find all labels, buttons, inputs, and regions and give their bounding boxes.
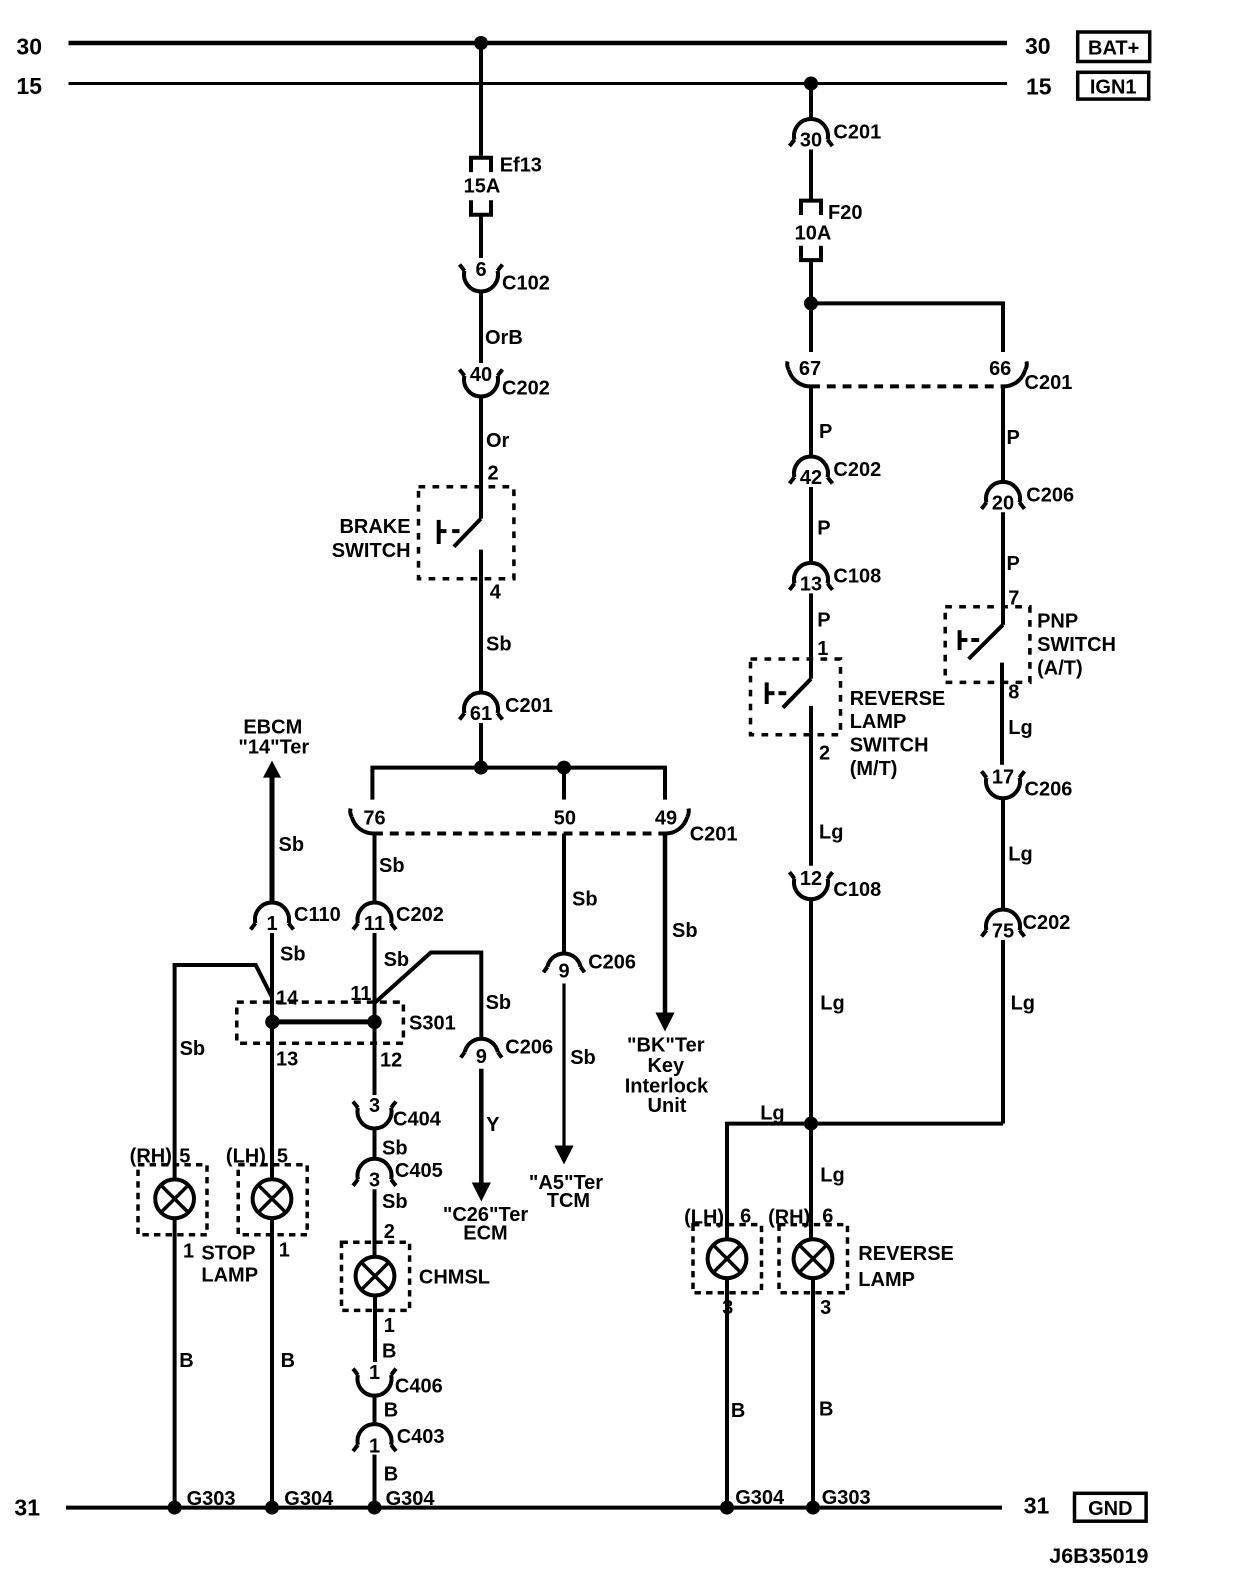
svg-text:SWITCH: SWITCH xyxy=(850,735,929,757)
svg-text:2: 2 xyxy=(384,1221,395,1243)
svg-text:G304: G304 xyxy=(284,1488,334,1510)
svg-text:1: 1 xyxy=(369,1436,380,1458)
svg-text:12: 12 xyxy=(380,1050,402,1072)
svg-text:3: 3 xyxy=(820,1297,831,1319)
svg-text:G303: G303 xyxy=(822,1487,871,1509)
svg-text:B: B xyxy=(384,1464,398,1486)
svg-text:P: P xyxy=(819,421,832,443)
svg-text:PNP: PNP xyxy=(1037,611,1078,633)
svg-text:1: 1 xyxy=(817,638,828,660)
svg-text:Sb: Sb xyxy=(672,920,698,942)
svg-text:8: 8 xyxy=(1008,681,1019,703)
svg-text:STOP: STOP xyxy=(201,1243,255,1265)
svg-text:3: 3 xyxy=(369,1095,380,1117)
svg-text:1: 1 xyxy=(384,1315,395,1337)
svg-text:C406: C406 xyxy=(395,1376,443,1398)
svg-text:12: 12 xyxy=(800,868,822,890)
svg-text:Sb: Sb xyxy=(379,855,405,877)
svg-text:15: 15 xyxy=(1026,73,1052,99)
svg-text:2: 2 xyxy=(488,463,499,485)
svg-text:C202: C202 xyxy=(833,459,881,481)
svg-text:P: P xyxy=(817,610,830,632)
svg-text:CHMSL: CHMSL xyxy=(419,1267,490,1289)
svg-text:66: 66 xyxy=(989,358,1011,380)
svg-text:15A: 15A xyxy=(464,176,501,198)
svg-text:9: 9 xyxy=(558,961,569,983)
svg-text:C206: C206 xyxy=(1026,485,1074,507)
svg-text:P: P xyxy=(817,518,830,540)
svg-text:Sb: Sb xyxy=(486,634,512,656)
svg-text:(A/T): (A/T) xyxy=(1037,658,1083,680)
svg-text:Sb: Sb xyxy=(384,949,410,971)
svg-text:C206: C206 xyxy=(588,952,636,974)
svg-text:Or: Or xyxy=(486,430,510,452)
svg-text:(M/T): (M/T) xyxy=(850,758,898,780)
svg-text:C201: C201 xyxy=(1025,372,1073,394)
svg-text:31: 31 xyxy=(1024,1493,1050,1519)
svg-text:4: 4 xyxy=(490,582,502,604)
svg-text:Sb: Sb xyxy=(180,1038,206,1060)
svg-text:10A: 10A xyxy=(795,222,832,244)
svg-text:6: 6 xyxy=(475,259,486,281)
svg-text:Sb: Sb xyxy=(279,834,305,856)
svg-text:C201: C201 xyxy=(833,122,881,144)
svg-text:G303: G303 xyxy=(187,1488,236,1510)
svg-text:GND: GND xyxy=(1088,1498,1132,1520)
svg-text:C202: C202 xyxy=(1023,912,1071,934)
svg-text:B: B xyxy=(179,1350,193,1372)
svg-text:20: 20 xyxy=(992,493,1014,515)
svg-text:Lg: Lg xyxy=(1008,844,1032,866)
svg-text:Sb: Sb xyxy=(486,992,512,1014)
svg-text:REVERSE: REVERSE xyxy=(858,1243,954,1265)
svg-text:13: 13 xyxy=(276,1049,298,1071)
svg-text:C206: C206 xyxy=(505,1037,553,1059)
svg-text:BRAKE: BRAKE xyxy=(339,516,410,538)
svg-text:LAMP: LAMP xyxy=(850,711,907,733)
svg-text:(LH): (LH) xyxy=(226,1146,266,1168)
svg-text:C110: C110 xyxy=(294,904,341,926)
svg-text:9: 9 xyxy=(476,1046,487,1068)
svg-text:Sb: Sb xyxy=(570,1047,596,1069)
svg-text:30: 30 xyxy=(1025,33,1051,59)
svg-text:1: 1 xyxy=(266,913,277,935)
svg-text:J6B35019: J6B35019 xyxy=(1049,1544,1148,1568)
svg-text:C403: C403 xyxy=(397,1426,445,1448)
svg-text:Sb: Sb xyxy=(382,1191,408,1213)
svg-text:B: B xyxy=(382,1341,396,1363)
svg-text:ECM: ECM xyxy=(463,1223,507,1245)
svg-text:14: 14 xyxy=(276,988,299,1010)
svg-text:TCM: TCM xyxy=(547,1190,590,1212)
svg-text:Sb: Sb xyxy=(572,889,598,911)
svg-text:S301: S301 xyxy=(409,1013,456,1035)
svg-text:Unit: Unit xyxy=(648,1095,687,1117)
svg-text:Sb: Sb xyxy=(382,1138,408,1160)
svg-text:B: B xyxy=(384,1400,398,1422)
svg-text:1: 1 xyxy=(279,1240,290,1262)
svg-text:C404: C404 xyxy=(393,1109,442,1131)
svg-text:C108: C108 xyxy=(833,566,881,588)
svg-text:G304: G304 xyxy=(735,1487,785,1509)
svg-text:Y: Y xyxy=(486,1114,500,1136)
svg-text:C201: C201 xyxy=(690,824,738,846)
svg-text:30: 30 xyxy=(800,130,822,152)
svg-text:40: 40 xyxy=(470,364,492,386)
svg-text:REVERSE: REVERSE xyxy=(850,688,946,710)
svg-text:C405: C405 xyxy=(395,1160,443,1182)
svg-text:P: P xyxy=(1007,427,1020,449)
svg-text:Sb: Sb xyxy=(280,944,306,966)
svg-text:Lg: Lg xyxy=(1011,993,1035,1015)
svg-text:Lg: Lg xyxy=(819,822,843,844)
svg-text:Ef13: Ef13 xyxy=(500,155,542,177)
svg-text:15: 15 xyxy=(16,73,42,99)
svg-text:G304: G304 xyxy=(386,1488,436,1510)
svg-text:Lg: Lg xyxy=(820,1165,844,1187)
svg-text:30: 30 xyxy=(16,34,42,60)
svg-text:C202: C202 xyxy=(502,378,550,400)
svg-text:42: 42 xyxy=(800,467,822,489)
svg-text:C206: C206 xyxy=(1025,778,1073,800)
svg-text:SWITCH: SWITCH xyxy=(332,540,411,562)
svg-text:1: 1 xyxy=(369,1362,380,1384)
svg-text:11: 11 xyxy=(364,913,385,935)
svg-text:67: 67 xyxy=(799,358,821,380)
svg-text:C201: C201 xyxy=(505,695,553,717)
svg-text:Key: Key xyxy=(647,1055,685,1077)
svg-text:C108: C108 xyxy=(833,879,881,901)
svg-text:Lg: Lg xyxy=(760,1103,784,1125)
svg-text:Lg: Lg xyxy=(1008,717,1032,739)
svg-text:F20: F20 xyxy=(828,202,862,224)
svg-text:B: B xyxy=(731,1400,745,1422)
svg-text:75: 75 xyxy=(992,921,1014,943)
svg-text:P: P xyxy=(1007,553,1020,575)
svg-text:13: 13 xyxy=(800,574,822,596)
svg-text:B: B xyxy=(281,1350,295,1372)
svg-text:OrB: OrB xyxy=(485,327,523,349)
svg-text:76: 76 xyxy=(363,808,385,830)
svg-text:SWITCH: SWITCH xyxy=(1037,634,1116,656)
svg-text:1: 1 xyxy=(183,1241,194,1263)
svg-text:C202: C202 xyxy=(396,904,444,926)
svg-text:Lg: Lg xyxy=(820,993,844,1015)
svg-text:50: 50 xyxy=(554,808,576,830)
svg-text:2: 2 xyxy=(819,743,830,765)
svg-text:LAMP: LAMP xyxy=(201,1265,258,1287)
svg-text:B: B xyxy=(819,1399,833,1421)
svg-text:61: 61 xyxy=(470,703,492,725)
svg-text:C102: C102 xyxy=(502,273,550,295)
svg-text:EBCM: EBCM xyxy=(243,717,302,739)
svg-text:17: 17 xyxy=(992,766,1014,788)
svg-text:31: 31 xyxy=(14,1495,40,1521)
svg-text:49: 49 xyxy=(655,808,677,830)
svg-text:3: 3 xyxy=(369,1170,380,1192)
svg-text:"BK"Ter: "BK"Ter xyxy=(627,1035,705,1057)
svg-text:BAT+: BAT+ xyxy=(1088,38,1139,60)
svg-text:LAMP: LAMP xyxy=(858,1269,915,1291)
svg-text:"14"Ter: "14"Ter xyxy=(238,736,309,758)
svg-text:IGN1: IGN1 xyxy=(1090,77,1137,99)
svg-text:11: 11 xyxy=(350,983,371,1005)
